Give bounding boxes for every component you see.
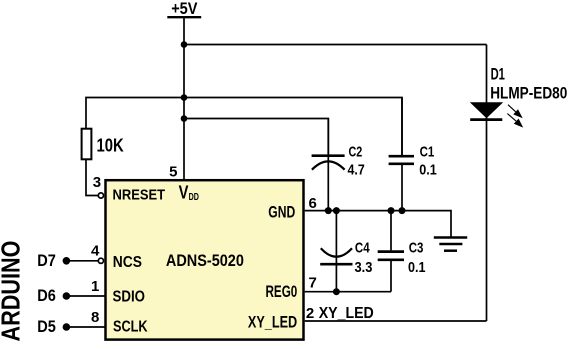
svg-text:ADNS-5020: ADNS-5020 xyxy=(166,251,244,270)
junction: C1 / GND rail xyxy=(399,207,406,214)
junction: +5V rail / LED rail xyxy=(181,41,188,48)
wire: rail to C2 xyxy=(184,119,328,157)
svg-text:C4: C4 xyxy=(355,239,370,256)
svg-text:C2: C2 xyxy=(349,143,363,160)
pin 4 inversion bubble (NCS) xyxy=(98,258,103,263)
svg-text:0.1: 0.1 xyxy=(419,162,437,179)
svg-text:SDIO: SDIO xyxy=(113,289,146,306)
junction: C4 / REG0 wire xyxy=(333,288,340,295)
svg-text:+5V: +5V xyxy=(171,0,197,18)
svg-text:6: 6 xyxy=(309,195,317,212)
D5 node dot xyxy=(63,323,71,331)
LED D1 HLMP-ED80 xyxy=(470,65,568,127)
svg-text:REG0: REG0 xyxy=(266,283,298,301)
svg-text:D6: D6 xyxy=(37,286,56,305)
svg-text:10K: 10K xyxy=(97,136,124,156)
svg-text:GND: GND xyxy=(268,204,295,222)
svg-text:1: 1 xyxy=(91,278,99,295)
wire: REG0 pin 7 to C4/C3 xyxy=(305,291,391,293)
svg-text:V: V xyxy=(179,182,189,202)
junction: C2 / GND rail xyxy=(325,207,332,214)
svg-text:3: 3 xyxy=(93,174,101,191)
svg-text:4: 4 xyxy=(91,243,100,260)
wire: GND pin 6 rail xyxy=(305,211,451,237)
wire: top rail to LED anode xyxy=(184,44,487,46)
svg-text:XY_LED: XY_LED xyxy=(319,305,374,322)
svg-text:2: 2 xyxy=(306,305,314,322)
IC U1 ADNS-5020 xyxy=(106,180,304,339)
junction: C3 / GND rail xyxy=(388,207,395,214)
svg-text:ARDUINO: ARDUINO xyxy=(0,241,25,342)
svg-text:7: 7 xyxy=(309,274,317,291)
svg-text:D1: D1 xyxy=(491,65,505,83)
svg-text:5: 5 xyxy=(169,164,177,181)
D6 node dot xyxy=(63,292,71,300)
wire: D5 to SCLK pin 8 xyxy=(66,326,105,328)
svg-text:0.1: 0.1 xyxy=(408,259,426,276)
svg-text:C1: C1 xyxy=(420,144,435,161)
capacitor C4 3.3 (polarized) xyxy=(320,211,372,292)
+5V power symbol xyxy=(167,0,201,18)
wire: resistor to NRESET pin 3 xyxy=(86,160,98,196)
D7 node dot xyxy=(63,257,71,265)
svg-text:NCS: NCS xyxy=(113,254,142,271)
LED light arrow 1 xyxy=(508,105,523,119)
wire: LED branch vertical xyxy=(486,45,488,322)
svg-text:C3: C3 xyxy=(409,239,424,256)
wire: D6 to SDIO pin 1 xyxy=(66,295,105,297)
wire: main +5V vertical down to IC pin 5 xyxy=(183,17,185,181)
junction: C4 / GND rail xyxy=(333,207,340,214)
svg-text:DD: DD xyxy=(189,192,199,203)
svg-text:D5: D5 xyxy=(37,317,56,336)
svg-text:SCLK: SCLK xyxy=(113,319,148,336)
capacitor C1 0.1 xyxy=(389,98,437,211)
svg-text:XY_LED: XY_LED xyxy=(248,314,298,332)
junction: rail C / main vertical xyxy=(181,115,188,122)
capacitor C2 4.7 (polarized) xyxy=(312,119,365,211)
wire: rail to resistor and C1 xyxy=(86,98,402,157)
pin 3 inversion bubble (NRESET) xyxy=(98,193,103,198)
capacitor C3 0.1 xyxy=(378,211,426,292)
ground symbol xyxy=(434,238,467,251)
wire: D7 to NCS pin 4 xyxy=(66,260,98,262)
resistor R1 10K xyxy=(82,129,124,160)
svg-text:NRESET: NRESET xyxy=(113,186,166,203)
svg-text:4.7: 4.7 xyxy=(348,162,365,179)
wire: XY_LED pin 2 to LED cathode xyxy=(305,320,487,322)
svg-text:8: 8 xyxy=(91,309,99,326)
junction: rail B / main vertical xyxy=(181,94,188,101)
LED light arrow 2 xyxy=(507,114,523,128)
svg-text:3.3: 3.3 xyxy=(355,259,373,276)
svg-text:HLMP-ED80: HLMP-ED80 xyxy=(490,84,567,102)
svg-text:D7: D7 xyxy=(37,251,56,270)
